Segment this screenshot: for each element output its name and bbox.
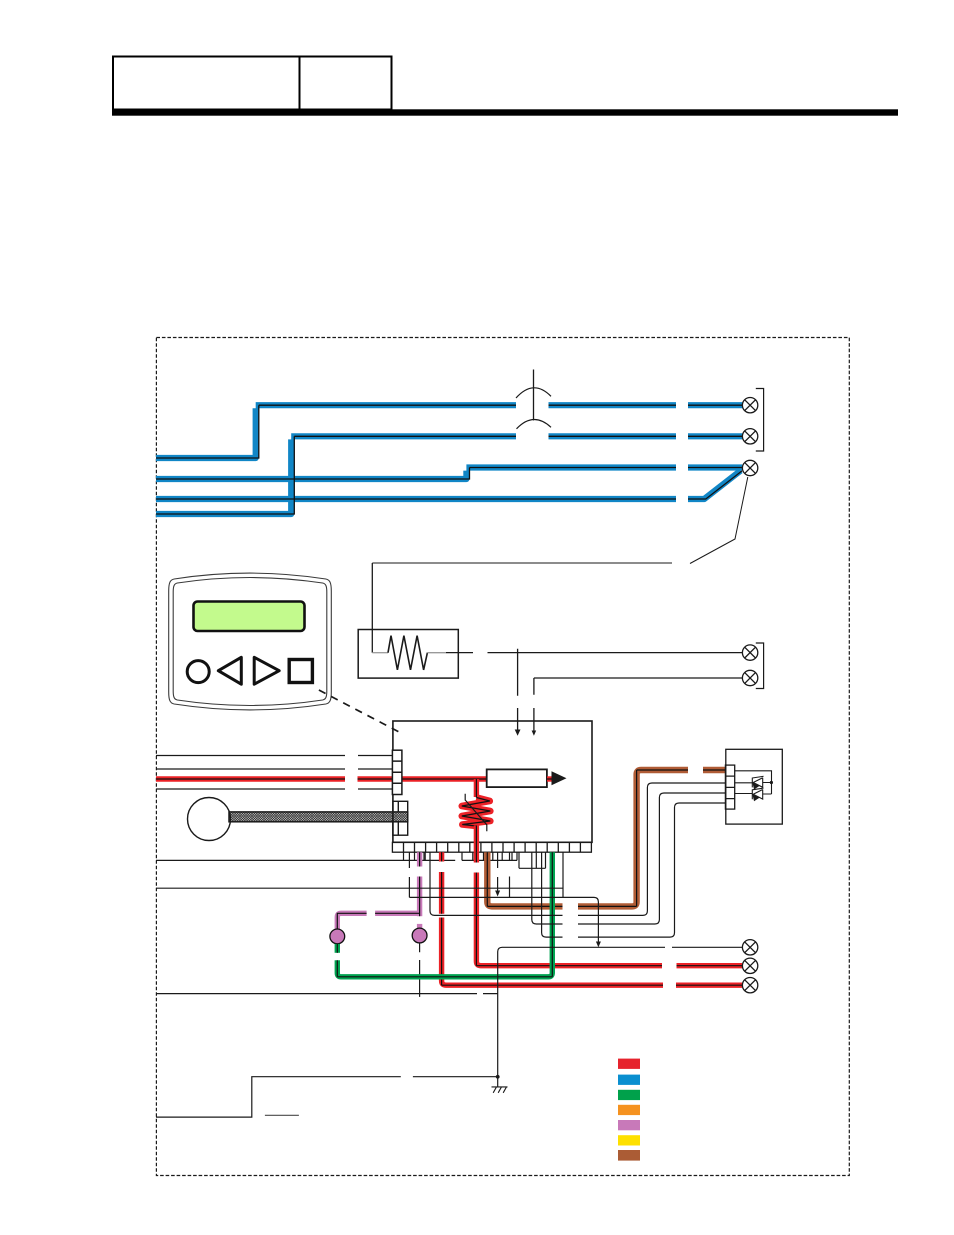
thermostat round button: [187, 661, 209, 683]
terminal X4: [742, 645, 757, 660]
bracket for X1 X2: [756, 389, 764, 452]
switch S1 lower contact arc: [517, 420, 552, 429]
ground junction dot: [496, 1075, 500, 1079]
gas valve Y1 terminal column: [725, 765, 734, 809]
black output arrow: [552, 771, 567, 785]
wire left line 4: [156, 788, 392, 790]
legend swatch orange: [618, 1105, 640, 1115]
bus line y994: [156, 993, 498, 995]
terminal X2: [742, 429, 757, 444]
wire red A band: [442, 852, 742, 985]
wire brown centerline: [487, 770, 726, 906]
violet junction ball right: [412, 928, 427, 943]
switch S1 actuator line: [533, 370, 535, 421]
legend swatch yellow: [618, 1135, 640, 1145]
blue wires L1-L4 color bands: [156, 405, 742, 514]
dashed black wire below right ball: [419, 943, 421, 997]
thin wire strip x497 dashed with arrow: [497, 852, 499, 891]
wire red below coil to strip band: [474, 826, 479, 853]
thermostat A1 inner shell: [173, 578, 327, 706]
thermostat right arrow button: [254, 657, 279, 684]
capillary terminal block: [393, 801, 408, 835]
wire red B band: [476, 852, 742, 966]
resistor R1 lead-in gray: [372, 652, 388, 654]
control unit U1 left terminal column: [392, 750, 402, 794]
gas valve Y1 box: [726, 749, 783, 824]
legend swatch green: [618, 1090, 640, 1100]
blue wires L1-L4 centerlines: [156, 405, 742, 514]
thin wire from strip x409 dashed: [408, 852, 410, 897]
terminal X5: [742, 670, 757, 685]
wire to terminal X5: [534, 677, 742, 679]
wire from leader down into resistor: [371, 563, 373, 653]
wire red tee to coil band: [474, 779, 479, 797]
wire resistor to terminal X4: [446, 652, 742, 654]
terminal X8: [742, 978, 757, 993]
wire red A centerline: [442, 852, 742, 985]
terminal X1: [742, 398, 757, 413]
thermostat A1 outer shell: [169, 573, 332, 710]
legend swatch brown: [618, 1150, 640, 1161]
bottom left wire step: [156, 1077, 498, 1117]
wire red B centerline: [476, 852, 742, 966]
wire green band: [337, 852, 552, 977]
dashed leader thermostat to control box: [319, 690, 402, 734]
thin wire strip to valve terminal 4: [542, 803, 726, 937]
bus line y897 with corner down: [409, 897, 598, 943]
capacitor line C1a down to control box: [517, 649, 519, 731]
title block cell left: [113, 57, 300, 110]
chassis ground symbol: [492, 1087, 508, 1093]
bus line y888: [156, 887, 563, 889]
resistor R1 lead-out gray: [427, 652, 446, 654]
thin wire strip x563 down: [562, 852, 564, 897]
wire left line 2: [156, 768, 392, 770]
heater coil element red: [462, 798, 491, 827]
legend swatch blue: [618, 1075, 640, 1085]
title block cell right: [300, 57, 392, 110]
wire red below coil centerline: [475, 826, 477, 853]
wire line y947 to terminal X6: [498, 947, 742, 1086]
gas valve solenoid valve symbol lower: [752, 788, 763, 801]
thin wire stub x424: [423, 852, 425, 860]
thin wire strip to valve terminal 3: [532, 793, 726, 924]
leader line from X3 to resistor circuit: [372, 477, 748, 564]
thermostat left arrow button: [218, 657, 241, 684]
terminal X3: [742, 460, 757, 475]
thermostat LCD display: [194, 602, 305, 632]
thin wire strip x509 dashed: [509, 852, 511, 897]
sensor bulb B1: [188, 798, 231, 841]
wire violet band: [337, 852, 419, 929]
terminal X6: [742, 940, 757, 955]
control unit U1 bottom terminal strip: [392, 842, 591, 852]
gas valve internal wiring: [735, 771, 772, 794]
wire red supply band: [156, 776, 488, 781]
gas valve solenoid valve symbol upper: [752, 776, 763, 789]
resistor R1 zigzag element: [388, 636, 427, 670]
terminal X7: [742, 958, 757, 973]
plug connector row under strip: [156, 852, 546, 868]
wire brown band: [487, 770, 726, 906]
thick header rule: [112, 109, 898, 115]
thermostat square button: [289, 660, 312, 683]
wire red stub right of label box: [547, 776, 552, 781]
heater coil element centerline: [462, 779, 491, 826]
capacitor line C1b down to control box: [533, 678, 535, 731]
wire red supply centerline: [156, 778, 488, 780]
relay label box inside U1: [487, 769, 547, 787]
sensor capillary crosshatched bar: [229, 812, 408, 822]
capacitor line C1b arrowhead: [532, 731, 537, 736]
wire green centerline: [337, 852, 552, 977]
gas valve junction dot: [770, 781, 773, 784]
switch S1 upper contact arc: [516, 388, 551, 398]
violet junction ball left: [330, 929, 345, 944]
bottom left short dash segment: [265, 1114, 299, 1116]
coil adjustment strike line: [465, 794, 487, 831]
resistor R1 enclosure box: [358, 630, 458, 679]
schematic dashed border frame: [156, 338, 849, 1176]
wire left line 1: [156, 755, 392, 757]
wire violet centerline: [337, 852, 419, 929]
legend swatch red: [618, 1059, 640, 1069]
thin wire strip to valve terminal 2: [430, 783, 726, 915]
arrow at x598 onto line 947: [596, 942, 601, 948]
legend swatch violet: [618, 1120, 640, 1130]
control unit U1 box: [393, 721, 592, 842]
capacitor line C1a arrowhead: [515, 730, 521, 736]
bracket for X4 X5: [756, 643, 764, 689]
